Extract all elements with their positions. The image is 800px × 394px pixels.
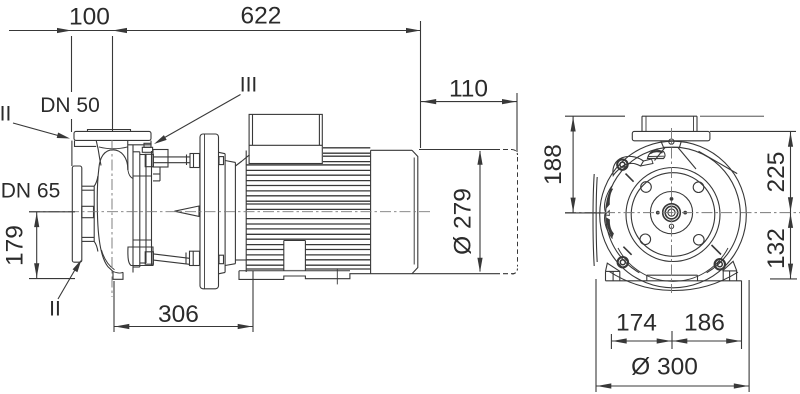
end view: lantern inner circle [631, 173, 715, 257]
svg-text:306: 306 [158, 301, 199, 328]
label III with leader [154, 74, 257, 145]
svg-text:Ø 300: Ø 300 [631, 354, 698, 381]
motor foot notch (white block over fins) [284, 241, 306, 271]
end view: shaft sleeve bold rings [663, 204, 681, 222]
end view: coupling bolt dots on pitch circle [656, 197, 687, 229]
label II upper with leader [0, 103, 70, 139]
motor foot pad (side view) [239, 268, 368, 284]
end view: lifting tab with hole [661, 139, 682, 147]
end view: casing bolts (double circles) [617, 159, 627, 169]
svg-text:III: III [240, 74, 258, 97]
dimension 179 (axis to base) [2, 212, 76, 279]
dimension 100 (suction face to discharge centerline) [9, 4, 113, 167]
dimension 622 (overall length) [113, 3, 421, 149]
tie rod top with nut [145, 154, 199, 168]
motor terminal box [246, 114, 370, 164]
label II lower with leader [49, 260, 81, 321]
end view: horizontal centerline [565, 212, 800, 214]
end view: shaft center circle [668, 209, 675, 216]
svg-text:132: 132 [763, 228, 790, 269]
svg-text:II: II [0, 103, 11, 126]
end view: upper-left clamp lug [613, 156, 653, 175]
dimension 132 (axis to base) [763, 213, 797, 279]
seal housing / lantern (side view) [128, 150, 168, 268]
motor drive-end bell [219, 151, 250, 274]
vent screw III (on seal housing) [142, 143, 152, 152]
end view: four lantern flange holes [641, 182, 652, 193]
dimension D 279 (fan cover diameter) [450, 150, 483, 272]
svg-text:188: 188 [540, 144, 567, 185]
dimension 188 (axis to pipe top) [540, 116, 625, 213]
svg-text:II: II [49, 298, 61, 321]
end view: suction flange edge-on (left) [593, 174, 614, 266]
fan cover (side view) [368, 150, 514, 273]
shaft end (pointed, on centerline) [175, 206, 200, 216]
motor body cooling fins [246, 148, 370, 269]
svg-text:DN 50: DN 50 [40, 94, 100, 117]
end view: radial tick marks on lantern circle [623, 174, 721, 255]
volute casing (side view) [94, 145, 133, 280]
dimension 174 (left of center to foot) [611, 310, 672, 350]
end view: small plug on lantern (upper left) [648, 150, 666, 159]
dimension 225 (flange top to axis) [710, 131, 796, 212]
tie rod bottom with nut (slightly inclined) [145, 251, 199, 265]
svg-text:Ø 279: Ø 279 [450, 188, 477, 255]
motor flange plate (side view) [200, 134, 219, 289]
dimension D 300 (flange diameter) [596, 279, 749, 392]
end view: discharge pipe (top) [642, 116, 764, 131]
end view: casing flange bottom arc [618, 248, 728, 281]
svg-text:186: 186 [684, 310, 725, 337]
discharge flange DN 50 (top, side view) [74, 130, 151, 171]
end view: motor fan cover outer circle [600, 141, 747, 288]
phantom outline - space for fan removal [419, 150, 518, 275]
dimension 306 (flange face to motor foot) [114, 271, 253, 332]
end view: left foot [606, 263, 621, 281]
dimension 110 (fan removal space) [421, 76, 517, 153]
end view: base line [606, 275, 742, 281]
svg-text:100: 100 [69, 4, 110, 31]
svg-text:179: 179 [2, 225, 29, 266]
end view: vertical centerline [671, 128, 673, 293]
svg-text:225: 225 [763, 152, 790, 193]
end view: volute casing silhouette arc (below base) [609, 271, 738, 290]
svg-text:DN 65: DN 65 [1, 180, 61, 203]
discharge centerline (vertical, side view) [111, 140, 113, 297]
dimension 186 (center to right foot) [672, 280, 742, 349]
end view: discharge flange plate [632, 131, 710, 140]
end view: top wedge detail (casing seam) [655, 148, 738, 174]
end view: lantern outer circle [626, 168, 720, 262]
pump shaft centerline (side view) [29, 211, 430, 213]
suction flange DN 65 (left, side view) [72, 166, 94, 262]
svg-text:110: 110 [449, 76, 488, 103]
end view: shaft hub circle [650, 192, 692, 234]
end view: right foot [723, 261, 737, 281]
svg-text:174: 174 [616, 310, 657, 337]
end view: fan cover inner rim circle [606, 147, 741, 273]
svg-text:622: 622 [241, 3, 282, 30]
